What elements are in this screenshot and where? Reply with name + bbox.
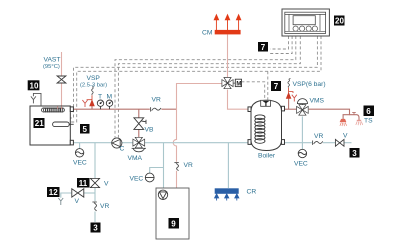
svg-text:7: 7 (261, 43, 266, 52)
svg-text:6: 6 (366, 107, 371, 116)
svg-text:CM: CM (202, 30, 213, 37)
svg-text:VMA: VMA (128, 155, 143, 162)
wire: M valve to tank port (228, 90, 249, 110)
svg-text:C: C (120, 146, 125, 153)
badge 20 (334, 16, 345, 26)
valve on VAST pipe (57, 76, 66, 83)
wire: CM collector riser (227, 35, 229, 78)
badge 10 (28, 80, 40, 90)
svg-text:Boiler: Boiler (258, 153, 276, 160)
tap TS2 (356, 121, 363, 126)
flexible joint VR on column (92, 201, 99, 211)
wire: VSP6 riser (288, 98, 290, 109)
svg-text:VB: VB (145, 127, 154, 134)
wire: CR riser (227, 143, 229, 188)
badge 12 (47, 187, 60, 197)
storage tank (Boiler) (248, 100, 285, 150)
wire: riser to M valve branch (177, 84, 222, 110)
svg-text:VR: VR (152, 97, 161, 104)
svg-text:V: V (104, 181, 109, 188)
safety valve VSP2 (288, 78, 291, 87)
tank sensor pocket (261, 100, 271, 106)
boiler 21 red coil stubs (58, 106, 62, 109)
badge 9 (169, 218, 180, 229)
svg-text:3: 3 (352, 149, 357, 158)
pale hot pipes (62, 35, 249, 188)
wire: return main line (71, 142, 249, 144)
wire controller to pump C (2) (118, 36, 300, 138)
red funnel Y near VSP2 (292, 95, 297, 102)
badge 7 upper (258, 42, 268, 52)
boiler 21 heat exchanger coil (42, 108, 65, 112)
svg-text:9: 9 (171, 220, 176, 229)
svg-text:TS: TS (364, 118, 373, 125)
svg-text:VEC: VEC (73, 160, 87, 167)
badge 7 lower (271, 81, 281, 91)
red funnel Y near VSP1 (82, 100, 87, 107)
svg-text:(2.5-3 bar): (2.5-3 bar) (80, 83, 107, 89)
red discharge arrow VSP2 (286, 88, 293, 99)
wire: feed to unit 9 pump (163, 143, 165, 191)
wire: boiler flow main line (71, 108, 177, 110)
wire: branch to VB/VMA (138, 109, 140, 118)
wire bus to tank sensor (267, 71, 269, 100)
badge 11 (77, 178, 90, 188)
svg-text:10: 10 (30, 81, 39, 90)
svg-text:VR: VR (184, 162, 193, 169)
wire controller to boiler 21 (1) (71, 36, 318, 118)
svg-text:VSP: VSP (87, 75, 101, 82)
svg-text:T: T (98, 94, 102, 101)
wire controller to boiler 21 (2) (71, 36, 322, 122)
expansion vessel VEC1 (75, 149, 83, 157)
svg-text:CR: CR (247, 188, 257, 195)
tank coil (255, 115, 265, 143)
badge 6 (364, 106, 375, 117)
wire controller to node 7 (upper) (270, 36, 289, 49)
wire: down to unit 9 with hop (173, 109, 176, 162)
svg-text:VR: VR (100, 203, 109, 210)
unit 9 box (156, 188, 189, 239)
badge 5 (80, 124, 90, 134)
flexible joint VR right (312, 140, 323, 146)
valve VB (134, 118, 146, 130)
wire: branch to valve 12 (84, 192, 95, 194)
wire: VAST expansion pipe (61, 52, 63, 76)
valve V right (335, 139, 344, 146)
badge 3 right (350, 148, 360, 158)
red discharge arrow VSP1 (87, 95, 95, 106)
svg-text:VEC: VEC (130, 176, 144, 183)
svg-text:M: M (107, 94, 113, 101)
wire: VEC2 branch (150, 168, 164, 174)
svg-text:VR: VR (314, 133, 323, 140)
svg-text:VMS: VMS (310, 98, 325, 105)
tap TS1 (340, 119, 347, 126)
wire: tank cold right side (284, 142, 352, 144)
mixing valve VMS (296, 99, 308, 116)
wire controller to node 7 (lower) (270, 36, 292, 54)
thermometer T (97, 100, 103, 109)
svg-text:(95°C): (95°C) (43, 64, 60, 70)
expansion vessel VEC2 (145, 173, 154, 182)
wire: VEC1 stub (79, 143, 81, 149)
flexible joint VR on main flow line (150, 106, 162, 112)
boiler 21 burner (53, 122, 74, 127)
svg-text:21: 21 (35, 119, 44, 128)
collector CM (214, 15, 241, 35)
valve 12 (72, 189, 84, 197)
wire: tap 2 branch (350, 115, 360, 120)
svg-text:7: 7 (274, 82, 279, 91)
svg-text:VEC: VEC (294, 161, 308, 168)
wire M-actuator to tank sensor (241, 82, 264, 100)
svg-text:5: 5 (83, 125, 88, 134)
pump in unit 9 (158, 190, 167, 199)
manometer M (106, 100, 112, 109)
wire controller to pump C (1) (115, 36, 296, 138)
svg-text:M: M (236, 81, 241, 87)
wire: VMS cold feed down (301, 116, 303, 149)
dashed control wiring (71, 36, 322, 138)
wire: VMS to taps (309, 109, 350, 119)
funnel Y below valve 12 (58, 198, 63, 205)
badge 3 left (91, 223, 101, 233)
svg-text:V: V (343, 133, 348, 140)
faucet tick (352, 112, 356, 114)
actuator box M (235, 79, 241, 87)
svg-text:V: V (75, 198, 80, 205)
wire: VSP discharge riser (91, 103, 93, 109)
expansion vessel VEC3 (298, 149, 306, 157)
flexible joint VR near unit 9 (174, 162, 181, 171)
svg-text:VSP(6 bar): VSP(6 bar) (293, 81, 326, 88)
pump C (112, 138, 122, 148)
svg-text:3: 3 (93, 224, 98, 233)
controller unit 20 (282, 9, 329, 36)
badge 21 (34, 118, 45, 128)
hot water pipes (strong red) (71, 98, 360, 138)
wire: column to valves 11/12 (94, 143, 96, 179)
svg-text:VAST: VAST (44, 57, 61, 64)
motorized valve M (222, 77, 236, 89)
boiler 21 body (30, 106, 73, 145)
safety valve VSP1 (92, 86, 94, 95)
wire: tank to VMS (284, 108, 297, 110)
svg-text:12: 12 (49, 188, 58, 197)
collector CR (215, 188, 239, 200)
mixing valve VMA (132, 137, 146, 152)
svg-text:11: 11 (79, 179, 88, 188)
cold/return pipes (pale teal) (61, 116, 352, 222)
boiler flue to funnel (item 10) (31, 93, 41, 106)
svg-text:20: 20 (335, 17, 344, 26)
valve 11 (90, 178, 99, 187)
